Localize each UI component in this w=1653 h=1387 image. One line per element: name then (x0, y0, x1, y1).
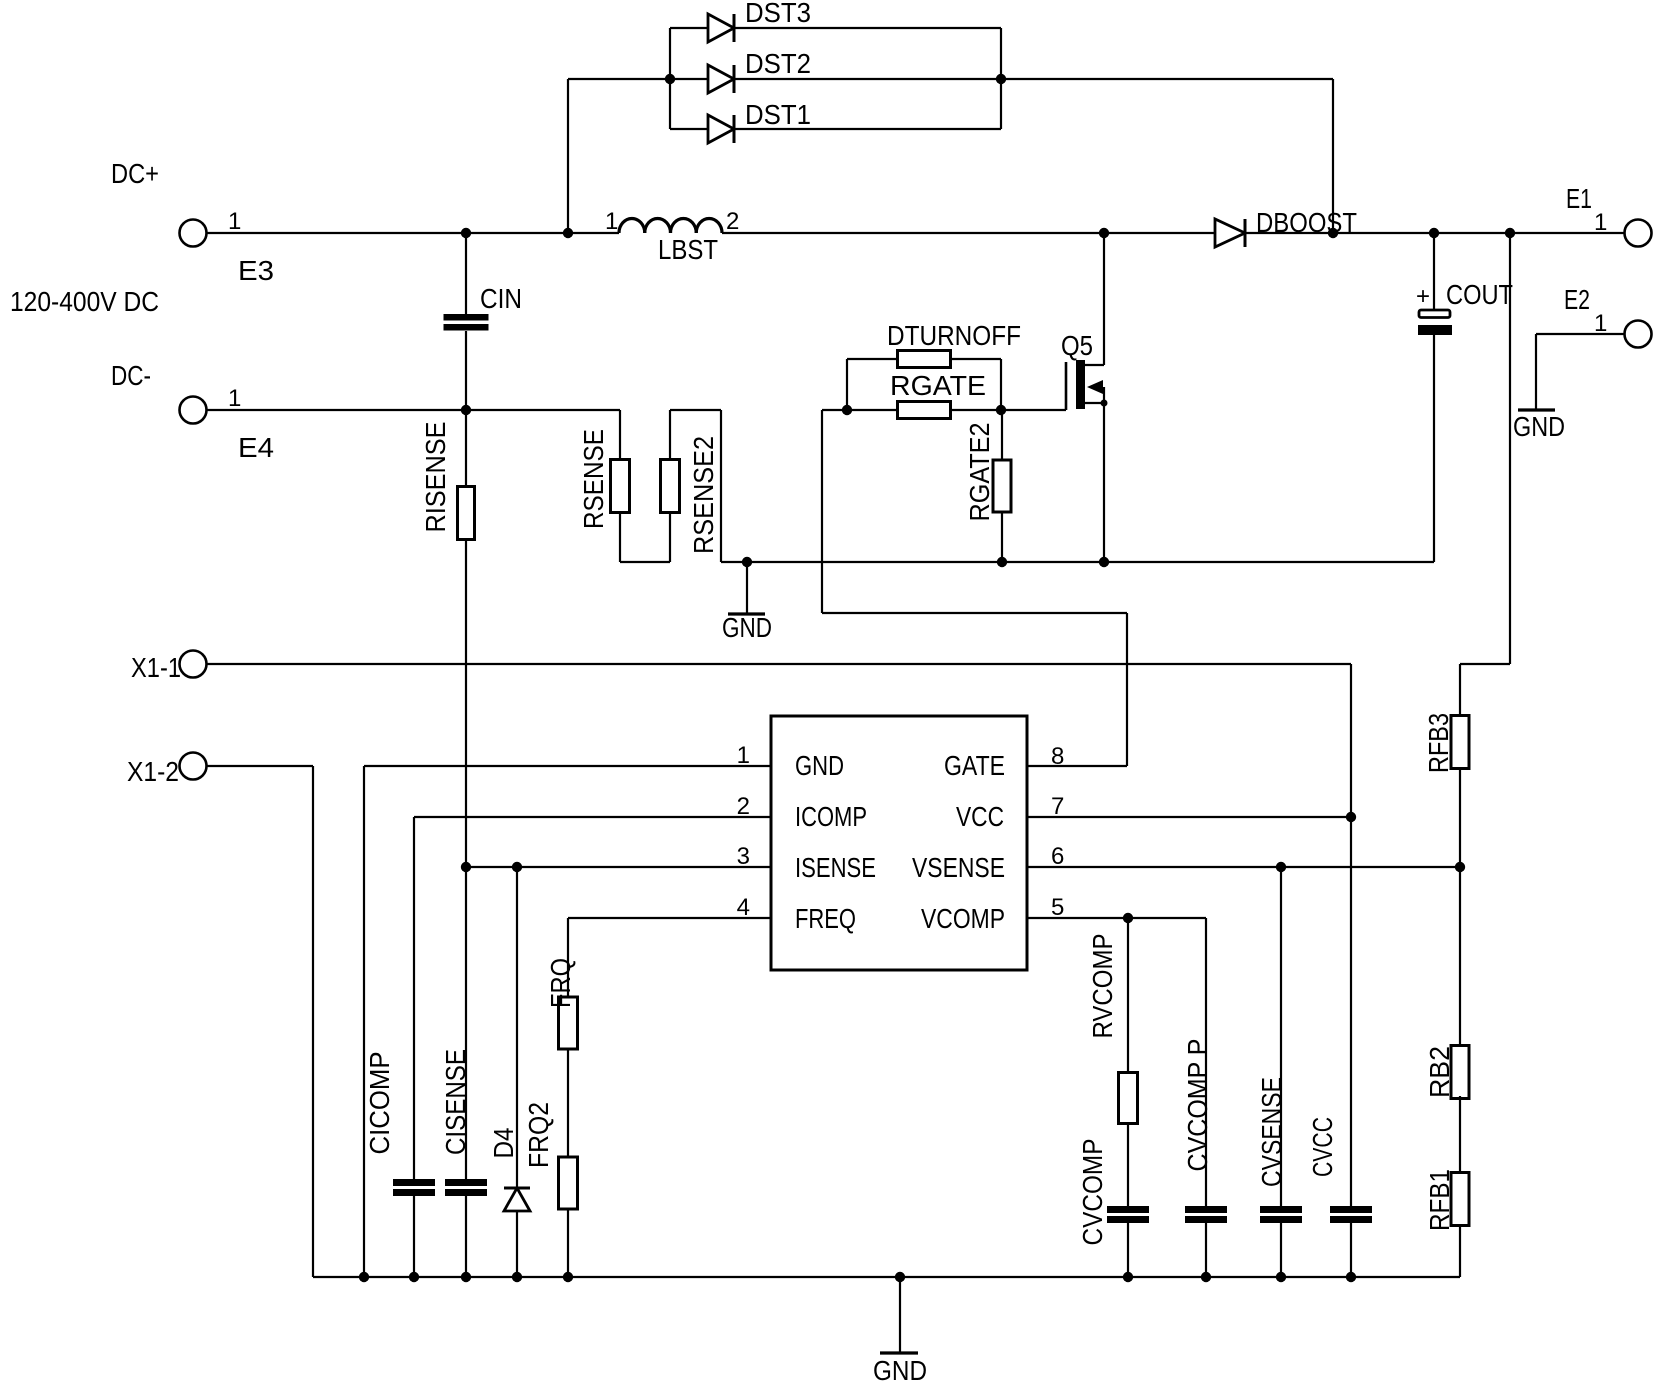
svg-text:RISENSE: RISENSE (420, 422, 451, 533)
wire DST1 left lead (670, 128, 708, 130)
svg-text:DTURNOFF: DTURNOFF (887, 320, 1021, 351)
wire D4 vertical (516, 867, 518, 1188)
svg-text:X1-2: X1-2 (127, 756, 179, 787)
wire ground rail (313, 1276, 1460, 1278)
label CVSENSE (1256, 1077, 1287, 1187)
wire RFB1 bottom lead (1459, 1225, 1461, 1277)
wire RISENSE top lead (465, 410, 467, 486)
label RISENSE (420, 422, 451, 533)
wire DST2 to return (1001, 78, 1333, 80)
wire DST return vertical (1332, 79, 1334, 233)
capacitor CISENSE (445, 1179, 487, 1196)
pin number 2 (737, 793, 750, 820)
ground symbol bottom (880, 1277, 918, 1353)
label DBOOST (1256, 207, 1357, 238)
junction ground rail GND stem (895, 1272, 905, 1282)
terminal X1-1 (180, 651, 207, 678)
capacitor COUT polarized (1418, 310, 1452, 335)
pin number 1 of E1 (1594, 209, 1607, 236)
pin number 1 of E4 (228, 385, 241, 412)
junction Q5 drain (1099, 228, 1109, 238)
wire DTURNOFF right vertical (1000, 359, 1002, 410)
pin number 3 (737, 843, 750, 870)
pin label VCC (956, 801, 1004, 832)
pin number 7 (1051, 793, 1064, 820)
svg-text:E3: E3 (238, 255, 274, 286)
wire DST right bus (1000, 28, 1002, 129)
svg-text:DST1: DST1 (745, 99, 811, 130)
wire source rail (721, 561, 1434, 563)
resistor RISENSE (458, 487, 475, 540)
resistor FRQ (559, 997, 578, 1049)
wire pin 5 VCOMP (1027, 917, 1206, 919)
capacitor CVCOMP P (1185, 1206, 1227, 1223)
junction RGATE right (996, 405, 1006, 415)
wire to RFB3 top (1460, 663, 1510, 665)
junction DST return (1328, 228, 1338, 238)
label E3 (238, 255, 274, 286)
junction ground rail CVSENSE (1276, 1272, 1286, 1282)
wire RB2 to RFB1 (1459, 1096, 1461, 1174)
wire DC+ from LBST to DBOOST (722, 232, 1215, 234)
wire CIN top lead (465, 233, 467, 314)
label RSENSE (578, 429, 609, 529)
label E1 (1566, 183, 1592, 214)
pin label VCOMP (921, 903, 1005, 934)
label CVCOMP P (1182, 1039, 1213, 1172)
label LBST (658, 234, 718, 265)
junction ground rail D4 (512, 1272, 522, 1282)
label X1-1 (131, 652, 181, 683)
svg-text:CVCC: CVCC (1307, 1117, 1338, 1177)
wire X1-2 vertical (312, 766, 314, 1277)
terminal E2 pin 1 (1625, 321, 1652, 348)
label Q5 (1061, 330, 1093, 361)
label COUT (1446, 279, 1513, 310)
label FRQ2 (523, 1102, 554, 1168)
wire DST2 right lead (734, 78, 1001, 80)
label CVCOMP (1077, 1139, 1108, 1246)
diode DBOOST (1215, 219, 1245, 247)
label RVCOMP (1087, 934, 1118, 1039)
junction CIN top (461, 228, 471, 238)
wire RSENSE to RSENSE2 bottom (620, 561, 670, 563)
wire X1-1 to VCC (206, 663, 1351, 665)
svg-text:DC+: DC+ (111, 158, 159, 189)
junction RISENSE top (461, 405, 471, 415)
wire pin 6 VSENSE (1027, 866, 1460, 868)
wire CISENSE bottom lead (465, 1196, 467, 1277)
svg-text:FRQ: FRQ (545, 958, 576, 1008)
port label DC+ (111, 158, 159, 189)
svg-text:CVCOMP: CVCOMP (1077, 1139, 1108, 1246)
resistor RVCOMP (1119, 1073, 1138, 1124)
diode D4 (504, 1188, 530, 1211)
label RGATE (890, 370, 986, 401)
label 120-400V DC (10, 286, 159, 317)
junction ground rail CISENSE (461, 1272, 471, 1282)
svg-text:120-400V DC: 120-400V DC (10, 286, 159, 317)
junction ground rail CVCC (1346, 1272, 1356, 1282)
ground symbol mid (728, 562, 765, 614)
junction COUT top (1429, 228, 1439, 238)
label E2 (1564, 284, 1590, 315)
wire RFB3 to RB2 (1459, 768, 1461, 1048)
svg-text:+: + (1416, 283, 1430, 310)
junction Q5 source (1099, 557, 1109, 567)
junction DST right (996, 74, 1006, 84)
junction ground rail CVCOMP P (1201, 1272, 1211, 1282)
label DST2 (745, 48, 811, 79)
pin label ICOMP (795, 801, 867, 832)
wire DC- from E4 (206, 409, 620, 411)
wire CVCC bottom lead (1350, 1223, 1352, 1277)
wire DC+ from E3 to LBST (206, 232, 619, 234)
svg-text:RFB3: RFB3 (1423, 713, 1454, 773)
wire pin 1 GND (364, 765, 771, 767)
capacitor CVSENSE (1260, 1206, 1302, 1223)
resistor RGATE2 (993, 460, 1011, 512)
svg-text:VCOMP: VCOMP (921, 903, 1005, 934)
svg-text:X1-1: X1-1 (131, 652, 181, 683)
wire CVCOMP P bottom lead (1205, 1223, 1207, 1277)
wire CVSENSE vertical (1280, 867, 1282, 1206)
wire output rail DBOOST to E1 (1245, 232, 1625, 234)
wire RGATE row left (822, 409, 898, 411)
wire DST3 left lead (670, 27, 708, 29)
wire Q5 source vertical (1103, 403, 1105, 562)
wire CICOMP bottom lead (413, 1196, 415, 1277)
resistor RFB1 (1451, 1173, 1469, 1226)
wire COUT bottom lead (1433, 335, 1435, 562)
svg-text:RGATE2: RGATE2 (964, 423, 995, 522)
svg-text:ISENSE: ISENSE (795, 852, 876, 883)
label RSENSE2 (688, 436, 719, 554)
junction ISENSE D4 (512, 862, 522, 872)
pin label FREQ (795, 903, 856, 934)
svg-text:D4: D4 (488, 1128, 519, 1159)
pin number 1 of LBST (605, 208, 618, 235)
label X1-2 (127, 756, 179, 787)
wire RVCOMP to CVCOMP (1127, 1123, 1129, 1206)
inductor LBST (619, 219, 722, 234)
resistor RSENSE (611, 460, 630, 513)
resistor RGATE (898, 402, 951, 419)
svg-text:8: 8 (1051, 743, 1064, 770)
wire CICOMP vertical (413, 817, 415, 1179)
svg-text:1: 1 (228, 208, 241, 235)
wire CVCOMP P vertical (1205, 918, 1207, 1206)
wire to DST2 left (568, 78, 708, 80)
wire RVCOMP top lead (1127, 918, 1129, 1073)
wire DST3 right lead (734, 27, 1001, 29)
label RFB3 (1423, 713, 1454, 773)
wire RISENSE bottom lead (465, 539, 467, 1179)
label D4 (488, 1128, 519, 1159)
wire pin 1 ground vertical (363, 766, 365, 1277)
svg-text:RB2: RB2 (1424, 1046, 1455, 1098)
resistor RFB3 (1451, 716, 1469, 769)
wire RFB3 top lead (1459, 664, 1461, 716)
resistor RSENSE2 (661, 460, 680, 513)
wire gate drive horizontal (822, 612, 1127, 614)
wire RSENSE top lead (619, 410, 621, 460)
diode DST1 (708, 115, 734, 143)
pin number 6 (1051, 843, 1064, 870)
capacitor CIN (444, 314, 489, 331)
wire E1 branch down (1509, 233, 1511, 664)
junction DST left (665, 74, 675, 84)
wire pin 7 VCC (1027, 816, 1351, 818)
wire DTURNOFF right lead (950, 358, 1001, 360)
svg-text:DST3: DST3 (745, 0, 811, 28)
terminal E3 pin 1 (180, 220, 207, 247)
svg-text:Q5: Q5 (1061, 330, 1093, 361)
wire DST branch vertical (567, 79, 569, 233)
junction ground rail CVCOMP (1123, 1272, 1133, 1282)
label GND near E2 (1513, 411, 1565, 442)
wire RGATE to gate (950, 409, 1066, 411)
diode DST3 (708, 14, 734, 42)
svg-text:1: 1 (605, 208, 618, 235)
svg-text:RSENSE: RSENSE (578, 429, 609, 529)
label FRQ (545, 958, 576, 1008)
junction VCC X1-1 (1346, 812, 1356, 822)
junction ISENSE RISENSE (461, 862, 471, 872)
capacitor CVCOMP (1107, 1206, 1149, 1223)
junction VCOMP RVCOMP (1123, 913, 1133, 923)
svg-text:CISENSE: CISENSE (440, 1049, 471, 1155)
junction RGATE2 bottom (997, 557, 1007, 567)
pin label GATE (944, 750, 1005, 781)
svg-text:CICOMP: CICOMP (364, 1052, 395, 1155)
wire RSENSE2 bottom lead (669, 513, 671, 562)
svg-text:2: 2 (726, 208, 739, 235)
junction output to RFB3 (1505, 228, 1515, 238)
wire Q5 drain vertical (1103, 233, 1105, 365)
wire X1-1 vertical (1350, 664, 1352, 1206)
wire DST1 right lead (734, 128, 1001, 130)
pin number 1 of E2 (1594, 310, 1607, 337)
svg-text:DBOOST: DBOOST (1256, 207, 1357, 238)
wire X1-2 horizontal (206, 765, 313, 767)
resistor FRQ2 (559, 1157, 578, 1209)
wire DTURNOFF left lead (847, 358, 898, 360)
pin number 2 of LBST (726, 208, 739, 235)
label CISENSE (440, 1049, 471, 1155)
wire FRQ2 bottom lead (567, 1209, 569, 1277)
wire gate drive left vertical (821, 410, 823, 613)
svg-text:1: 1 (228, 385, 241, 412)
label DST1 (745, 99, 811, 130)
junction DST branch top (563, 228, 573, 238)
transistor Q5 (1066, 360, 1108, 410)
resistor RB2 (1451, 1046, 1469, 1099)
junction DTURNOFF left (842, 405, 852, 415)
svg-text:RFB1: RFB1 (1424, 1169, 1455, 1231)
label RB2 (1424, 1046, 1455, 1098)
wire RSENSE bottom lead (619, 513, 621, 562)
ground symbol near E2 (1518, 408, 1555, 411)
junction mid ground (742, 557, 752, 567)
svg-text:ICOMP: ICOMP (795, 801, 867, 832)
svg-text:COUT: COUT (1446, 279, 1513, 310)
wire ground branch vertical (720, 410, 722, 562)
wire pin 2 ICOMP (414, 816, 771, 818)
wire gate drive right vertical (1126, 613, 1128, 766)
svg-text:E1: E1 (1566, 183, 1592, 214)
capacitor CICOMP (393, 1179, 435, 1196)
wire pin 3 ISENSE (466, 866, 771, 868)
svg-text:GND: GND (722, 612, 772, 643)
wire E2 ground vertical (1535, 334, 1537, 409)
svg-text:DST2: DST2 (745, 48, 811, 79)
pin label GND (795, 750, 844, 781)
wire pin 4 FREQ (568, 917, 771, 919)
svg-text:RVCOMP: RVCOMP (1087, 934, 1118, 1039)
label GND mid (722, 612, 772, 643)
pin label VSENSE (912, 852, 1005, 883)
wire CVSENSE bottom lead (1280, 1223, 1282, 1277)
junction ground rail FRQ2 (563, 1272, 573, 1282)
pin number 8 (1051, 743, 1064, 770)
label DST3 (745, 0, 811, 28)
svg-text:CIN: CIN (480, 283, 522, 314)
svg-text:RSENSE2: RSENSE2 (688, 436, 719, 554)
wire CVCOMP bottom lead (1127, 1223, 1129, 1277)
svg-text:CVCOMP P: CVCOMP P (1182, 1039, 1213, 1172)
resistor DTURNOFF (898, 351, 951, 368)
pin number 1 (737, 742, 750, 769)
svg-text:DC-: DC- (111, 360, 151, 391)
label CIN (480, 283, 522, 314)
svg-text:RGATE: RGATE (890, 370, 986, 401)
terminal X1-2 (180, 753, 207, 780)
wire GATE pin 8 (1027, 765, 1127, 767)
capacitor CVCC (1330, 1206, 1372, 1223)
label E4 (238, 432, 274, 463)
wire DTURNOFF left vertical (846, 359, 848, 410)
junction ground rail CICOMP (409, 1272, 419, 1282)
label RFB1 (1424, 1169, 1455, 1231)
label GND bottom (873, 1355, 927, 1386)
svg-text:GND: GND (795, 750, 844, 781)
wire RSENSE2 top lead (669, 410, 671, 460)
wire COUT top lead (1433, 233, 1435, 309)
svg-text:VCC: VCC (956, 801, 1004, 832)
terminal E1 pin 1 (1625, 220, 1652, 247)
junction VSENSE divider (1455, 862, 1465, 872)
wire D4 bottom lead (516, 1211, 518, 1277)
junction VSENSE CVSENSE (1276, 862, 1286, 872)
terminal E4 pin 1 (180, 397, 207, 424)
pin number 1 of E3 (228, 208, 241, 235)
svg-text:E2: E2 (1564, 284, 1590, 315)
op-amp U1 PFC controller box (771, 716, 1027, 970)
label CICOMP (364, 1052, 395, 1155)
wire FRQ to FRQ2 (567, 1049, 569, 1157)
wire DST left bus (669, 28, 671, 129)
pin label ISENSE (795, 852, 876, 883)
wire RGATE2 bottom lead (1001, 512, 1003, 562)
svg-text:FRQ2: FRQ2 (523, 1102, 554, 1168)
svg-text:LBST: LBST (658, 234, 718, 265)
pin number 4 (737, 894, 750, 921)
wire E2 to ground (1536, 333, 1625, 335)
svg-text:E4: E4 (238, 432, 274, 463)
junction ground rail pin1 (359, 1272, 369, 1282)
label DTURNOFF (887, 320, 1021, 351)
wire RGATE2 top lead (1001, 410, 1003, 460)
wire FRQ top lead (567, 918, 569, 997)
svg-text:CVSENSE: CVSENSE (1256, 1077, 1287, 1187)
svg-text:GND: GND (1513, 411, 1565, 442)
svg-text:VSENSE: VSENSE (912, 852, 1005, 883)
label RGATE2 (964, 423, 995, 522)
wire RSENSE2 top to ground branch (670, 409, 721, 411)
port label DC- (111, 360, 151, 391)
svg-text:FREQ: FREQ (795, 903, 856, 934)
svg-text:GATE: GATE (944, 750, 1005, 781)
label COUT plus sign (1416, 283, 1430, 310)
wire CIN bottom lead (465, 331, 467, 410)
svg-text:GND: GND (873, 1355, 927, 1386)
pin number 5 (1051, 894, 1064, 921)
diode DST2 (708, 65, 734, 93)
label CVCC (1307, 1117, 1338, 1177)
